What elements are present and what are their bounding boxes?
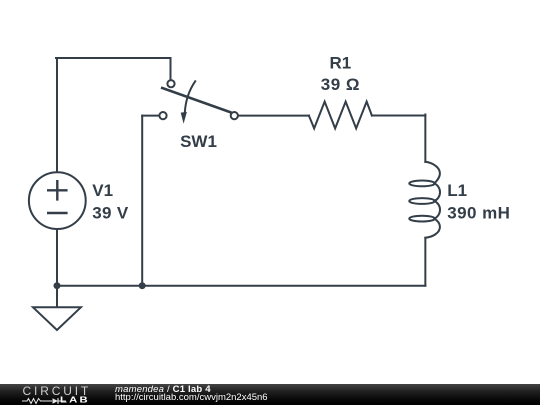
wire switch pole down (141, 116, 143, 286)
CircuitLab logo wordmark LAB (60, 395, 90, 405)
coil bottom hook (425, 219, 440, 238)
switch right terminal circle (231, 112, 238, 119)
wire junction to ground (56, 286, 58, 308)
svg-text:39 V: 39 V (92, 203, 129, 222)
svg-text:SW1: SW1 (180, 132, 217, 151)
V1 circle (29, 172, 86, 229)
svg-text:390 mH: 390 mH (447, 203, 510, 222)
junction dot at switch branch (139, 282, 146, 289)
junction dot at V1 bottom (54, 282, 61, 289)
coil top hook (425, 162, 440, 184)
coil right arc 1-2 (434, 183, 440, 201)
coil loop 2 (409, 198, 435, 204)
switch toggle arc (185, 81, 195, 112)
switch pole terminal circle (159, 112, 166, 119)
wire bottom horizontal (57, 285, 425, 287)
switch blade (162, 88, 230, 112)
coil loop 1 (409, 181, 435, 187)
wire left vertical (top corner to V1 top) (56, 58, 58, 173)
V1 minus sign (48, 212, 66, 214)
svg-text:39 Ω: 39 Ω (321, 75, 360, 94)
coil right arc 2-3 (434, 201, 440, 219)
switch SW1 (159, 80, 238, 124)
inductor L1 (409, 162, 440, 238)
wire inductor bottom to corner (424, 238, 426, 286)
wire switch right terminal to resistor (238, 115, 309, 117)
resistor R1 (309, 102, 372, 129)
footer bar (0, 384, 540, 405)
ground symbol (33, 307, 81, 330)
CircuitLab logo squiggle (resistor + diode) (22, 397, 68, 405)
svg-text:V1: V1 (92, 181, 113, 200)
V1 plus sign (48, 181, 66, 199)
footer project text (115, 385, 211, 394)
coil loop 3 (409, 216, 435, 222)
wire V1 bottom to junction (56, 229, 58, 286)
wire right vertical to inductor top (424, 115, 426, 162)
svg-text:L1: L1 (447, 181, 467, 200)
CircuitLab logo wordmark CIRCUIT (23, 384, 92, 398)
wire top horizontal (56, 57, 171, 59)
switch top terminal circle (167, 80, 174, 87)
wire switch pole to left corner (142, 115, 159, 117)
wire resistor to right corner (372, 115, 425, 117)
wire switch top terminal lead (170, 58, 172, 80)
voltage source V1 (29, 172, 86, 229)
switch toggle arrowhead (181, 112, 187, 124)
svg-text:R1: R1 (330, 53, 352, 72)
